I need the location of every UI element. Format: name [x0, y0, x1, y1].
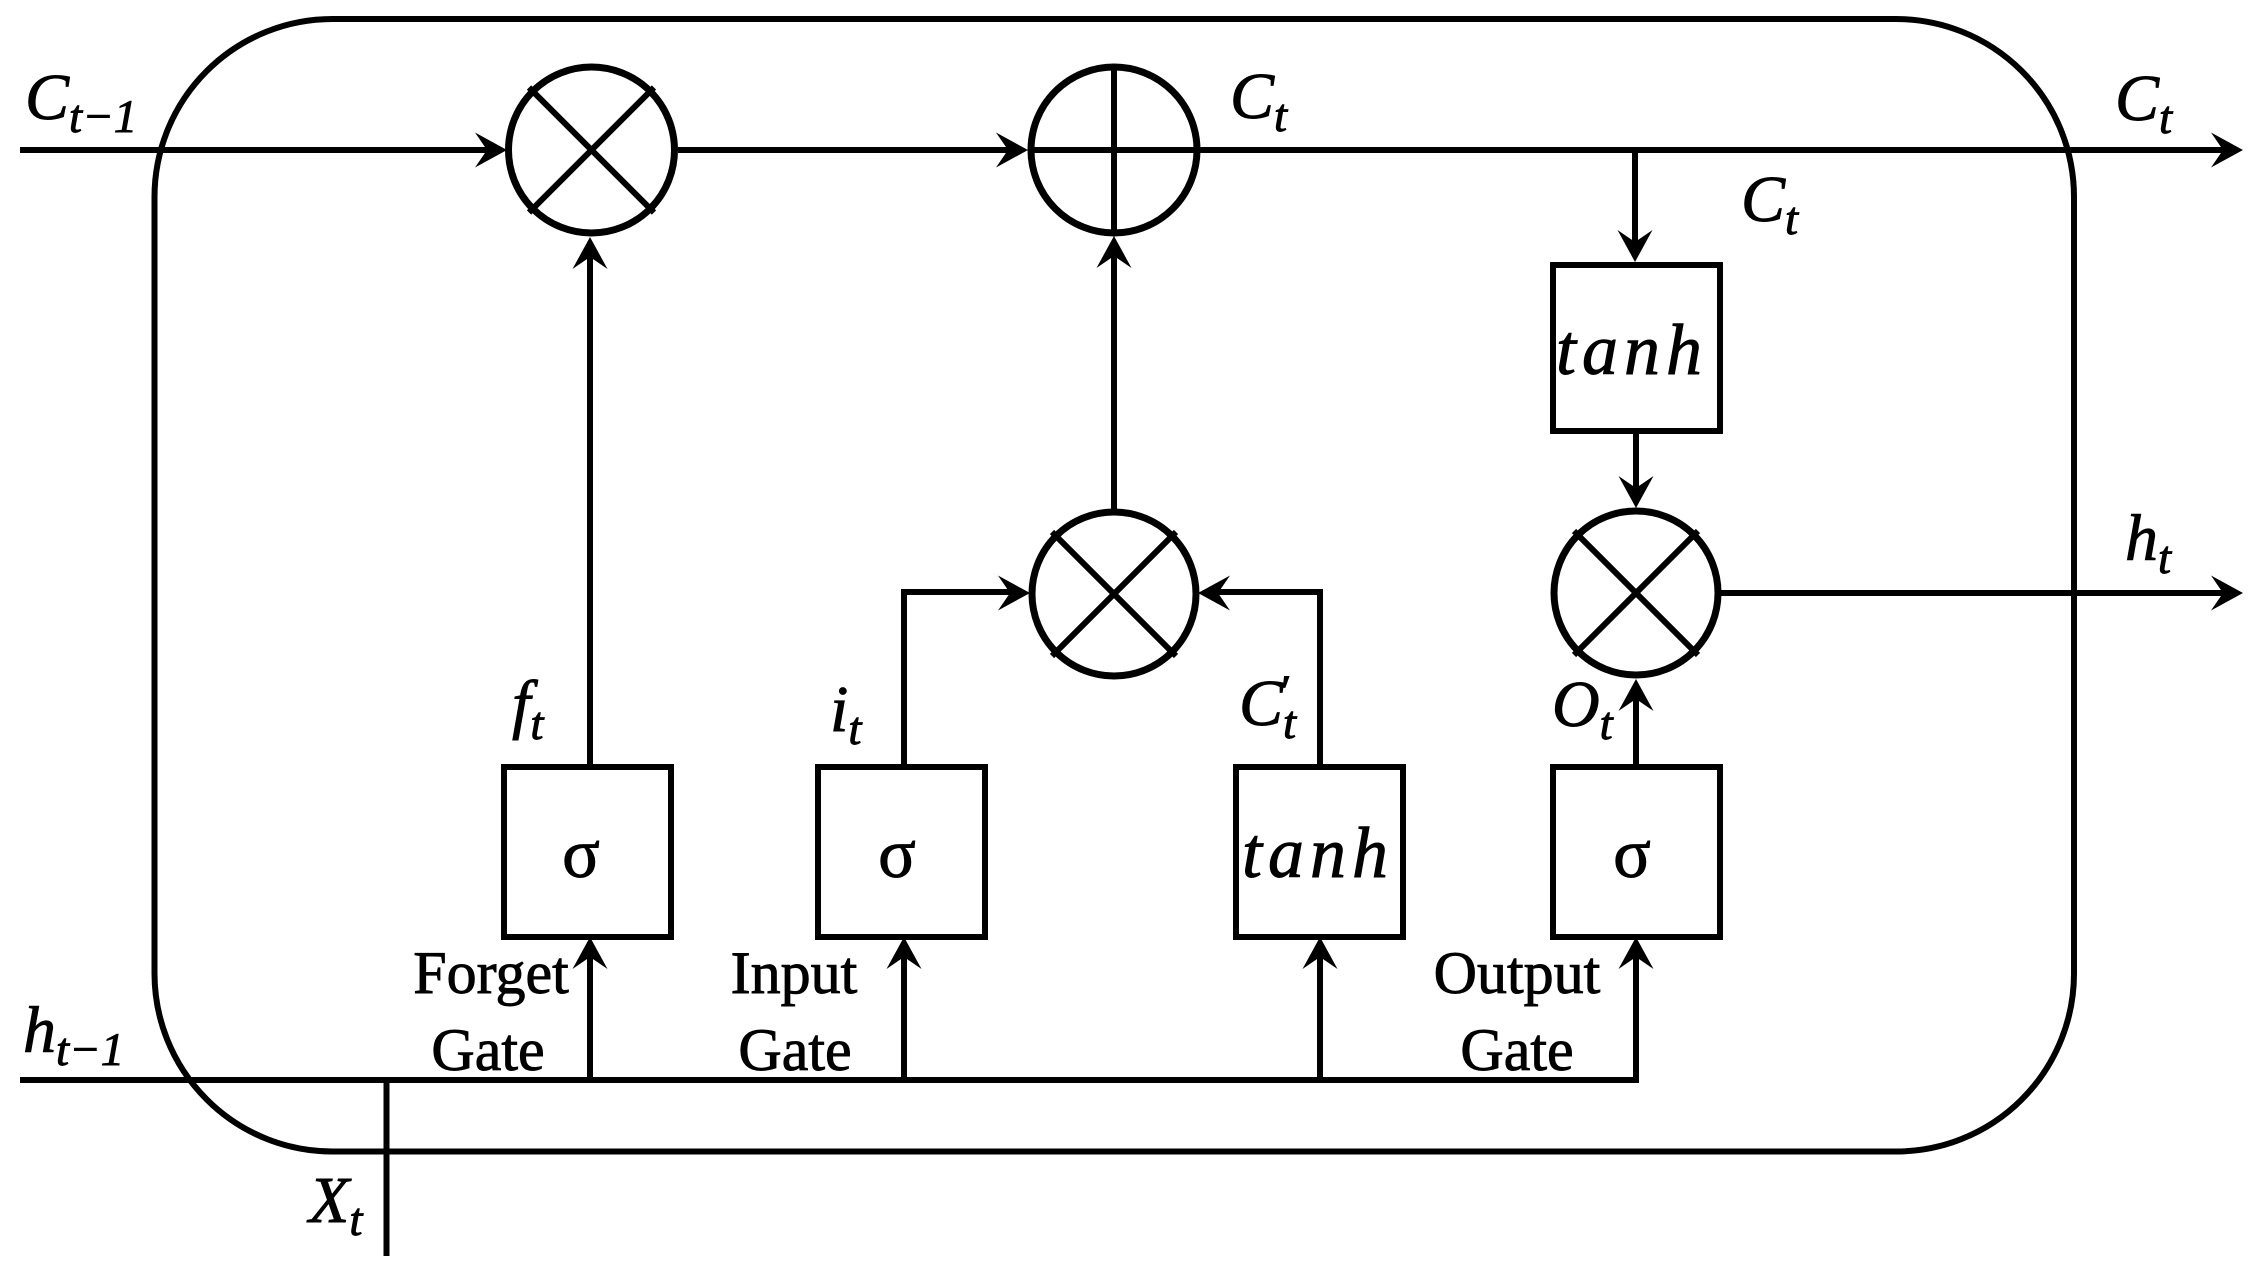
svg-text:σ: σ: [562, 816, 600, 893]
svg-text:Gate: Gate: [1460, 1017, 1573, 1083]
tanh box candidate: [1236, 767, 1403, 937]
middle multiplier node (input gate product): [1032, 512, 1196, 676]
wire C_{t-1} input segment: [20, 133, 507, 168]
wire h_t output: [1718, 576, 2243, 611]
sigma box forget gate: [504, 767, 671, 937]
riser arrow into forget sigma: [573, 937, 608, 1080]
wire f_t from forget sigma to multiplier: [573, 237, 608, 766]
svg-text:Ct′: Ct′: [1239, 666, 1297, 749]
svg-text:tanh: tanh: [1242, 813, 1394, 893]
wire multiplier to adder: [678, 133, 1028, 168]
LSTM cell boundary (rounded rectangle): [155, 19, 2075, 1152]
svg-text:Input: Input: [731, 940, 858, 1006]
wire branch down to tanh: [1618, 153, 1653, 262]
wire C_t' from bottom tanh to middle multiplier: [1198, 576, 1320, 767]
multiplier node (forget gate product): [509, 67, 675, 233]
wire i_t from input sigma to middle multiplier: [904, 576, 1030, 767]
wire X_t input: [384, 1079, 390, 1256]
riser arrow into input sigma: [887, 937, 922, 1080]
wire C_t output to the right: [1031, 133, 2243, 168]
svg-text:tanh: tanh: [1556, 310, 1708, 390]
svg-text:Gate: Gate: [431, 1017, 544, 1083]
svg-text:σ: σ: [1613, 816, 1651, 893]
riser arrow into bottom tanh: [1303, 937, 1338, 1080]
wire h_{t-1} input line: [20, 937, 1654, 1080]
wire O_t from output sigma to output multiplier: [1619, 679, 1654, 766]
wire tanh to output multiplier: [1619, 431, 1654, 508]
adder node (plus in circle): [1031, 67, 1197, 233]
tanh box (cell output activation): [1553, 265, 1720, 431]
output multiplier node: [1554, 511, 1718, 675]
svg-text:Output: Output: [1434, 940, 1601, 1006]
svg-text:Gate: Gate: [738, 1017, 851, 1083]
svg-text:Forget: Forget: [413, 940, 569, 1006]
wire middle multiplier to adder: [1097, 236, 1132, 510]
svg-text:σ: σ: [878, 816, 916, 893]
sigma box input gate: [818, 767, 985, 937]
sigma box output gate: [1553, 767, 1720, 937]
